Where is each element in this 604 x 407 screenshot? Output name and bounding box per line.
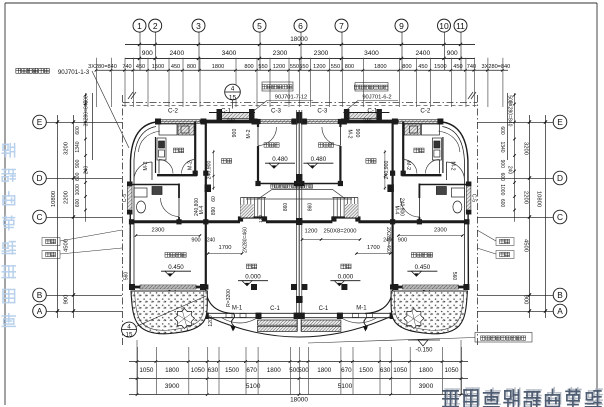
svg-text:240,900: 240,900 [207,161,213,180]
svg-text:11: 11 [456,21,465,31]
svg-text:3900: 3900 [165,383,180,390]
svg-text:1800: 1800 [267,367,282,374]
svg-text:450: 450 [171,64,180,70]
entry curved wall left [206,290,233,314]
svg-text:6: 6 [298,21,303,31]
window C-2 left [159,120,200,124]
svg-text:1500: 1500 [225,367,240,374]
svg-text:2200: 2200 [523,191,529,204]
svg-text:800: 800 [402,64,411,70]
curved bay wall left [130,122,156,290]
svg-text:1500: 1500 [359,367,374,374]
svg-text:D: D [37,173,43,183]
svg-text:1700: 1700 [367,245,380,251]
window C-1 bay left [222,113,250,119]
stair right unit [357,198,359,218]
svg-text:1200: 1200 [305,229,318,235]
svg-text:1000: 1000 [499,184,505,195]
level -0.150 [408,339,440,341]
bottom dimension chains [129,361,468,363]
svg-text:2300: 2300 [434,228,447,234]
svg-text:1050: 1050 [444,367,459,374]
svg-text:1: 1 [137,21,142,31]
svg-text:60: 60 [211,196,217,202]
gym bottom wall [258,183,297,185]
svg-text:18000: 18000 [290,36,308,43]
room label bedroom right [411,253,416,258]
dim line dining vertical left [213,150,215,190]
svg-text:1500: 1500 [152,64,164,70]
svg-text:800: 800 [345,64,354,70]
svg-text:M-2: M-2 [188,161,194,170]
svg-text:450: 450 [136,64,145,70]
svg-text:600: 600 [499,126,505,135]
svg-text:1800: 1800 [212,64,224,70]
kitchen right wall [194,122,196,175]
bath right wall [178,184,180,199]
svg-text:0.450: 0.450 [415,264,431,271]
window C-3 right [307,120,339,124]
curved bay wall right [442,122,468,290]
terrace right stippled [391,291,467,334]
svg-text:900: 900 [523,295,529,305]
svg-text:1050: 1050 [393,367,408,374]
svg-text:670: 670 [341,367,352,374]
svg-text:1800: 1800 [165,367,180,374]
dim line dining vertical right [384,150,386,190]
top fine dimension chain [96,69,508,71]
svg-text:3400: 3400 [364,50,379,57]
stairwell trapezoid [258,190,346,200]
section mark 4/15 bottom [122,322,137,337]
svg-text:600: 600 [499,173,505,182]
svg-text:C-2: C-2 [420,108,431,115]
bath fixtures left [134,188,147,197]
svg-text:860: 860 [283,203,289,212]
label sanshui left [46,239,50,243]
svg-text:1500: 1500 [434,64,446,70]
svg-text:4: 4 [127,323,131,330]
svg-text:3400: 3400 [222,50,237,57]
svg-text:1200: 1200 [273,64,285,70]
callout stair detail top-left [16,68,21,73]
svg-text:550: 550 [290,64,299,70]
room label gym left [264,143,268,147]
left dimension chain [73,115,75,318]
svg-text:5: 5 [257,21,262,31]
living bottom wall left (double line) [207,312,297,314]
window C-3 left [260,120,292,124]
svg-text:900: 900 [499,160,505,169]
bedroom bottom wall left [130,286,206,289]
svg-text:550: 550 [258,64,267,70]
kitchen bottom wall [157,174,197,176]
svg-text:7: 7 [339,21,344,31]
svg-text:C-5: C-5 [122,194,128,202]
svg-text:9: 9 [399,21,404,31]
svg-text:450: 450 [418,64,427,70]
svg-text:2X280=460: 2X280=460 [243,227,249,253]
svg-text:3200: 3200 [523,142,529,155]
svg-text:600: 600 [499,199,505,208]
svg-text:740: 740 [122,64,131,70]
callout water detail right [355,83,388,92]
svg-text:240: 240 [207,238,216,244]
svg-text:670: 670 [246,367,257,374]
svg-text:M-4: M-4 [199,205,205,214]
svg-text:M-1: M-1 [356,306,367,312]
svg-text:3X280=840: 3X280=840 [84,100,90,126]
svg-text:1200: 1200 [313,64,325,70]
svg-text:5100: 5100 [338,383,353,390]
svg-text:500: 500 [298,367,309,374]
porch arc center [209,317,390,337]
svg-text:630: 630 [380,367,391,374]
kitchen left wall [155,137,157,173]
stair left unit [240,198,242,218]
svg-text:C-1: C-1 [221,108,232,115]
svg-text:10800: 10800 [536,191,542,207]
svg-text:C: C [37,212,43,222]
svg-text:0.480: 0.480 [311,156,327,163]
svg-text:18000: 18000 [290,397,308,404]
kitchen counter right [421,124,439,135]
wall piers top [155,119,161,125]
svg-text:1800: 1800 [317,367,332,374]
svg-text:M-2: M-2 [449,162,455,171]
svg-text:600: 600 [75,126,81,135]
svg-text:2300: 2300 [152,228,165,234]
svg-text:0.450: 0.450 [168,264,184,271]
svg-text:800: 800 [187,64,196,70]
svg-text:2200: 2200 [64,191,70,204]
room label dining right [366,159,371,164]
svg-text:15: 15 [126,332,133,339]
svg-text:C: C [557,212,563,222]
door bath left [161,198,180,217]
svg-text:4500: 4500 [64,239,70,252]
door M-2 kitchen left [159,160,173,174]
wall junction piers [193,171,198,176]
door bath right [400,198,419,217]
svg-text:1000: 1000 [75,184,81,195]
svg-text:90J701-1-3: 90J701-1-3 [58,69,90,76]
svg-text:900: 900 [75,159,81,168]
party wall center [298,110,300,316]
door M-2 bay left [134,162,152,180]
grid bubbles top [133,19,146,32]
callout wall detail center [262,82,293,91]
svg-text:3X280=840: 3X280=840 [88,64,117,70]
svg-text:1700: 1700 [219,245,232,251]
svg-text:560: 560 [124,272,130,281]
svg-text:10800: 10800 [51,191,57,207]
page border top [5,2,597,4]
svg-text:90J701-6-2: 90J701-6-2 [362,95,391,101]
terrace plant right [404,309,424,329]
corridor note center [271,185,275,189]
gym left wall [257,122,259,128]
bath fixtures right [451,188,464,197]
svg-text:550: 550 [331,64,340,70]
svg-text:3X280=840: 3X280=840 [482,64,511,70]
svg-text:3: 3 [196,21,201,31]
outer wall top [155,120,443,124]
room label bedroom left [165,253,170,258]
svg-text:B: B [557,290,563,300]
svg-text:3900: 3900 [419,383,434,390]
svg-text:1200: 1200 [208,315,214,326]
svg-text:E: E [37,117,43,127]
svg-text:900: 900 [142,50,153,57]
living bottom wall right (double line) [302,312,392,314]
svg-text:D: D [557,173,563,183]
svg-text:240: 240 [84,166,90,175]
C-5 window caps [127,182,133,187]
room label living left [246,264,251,269]
svg-text:250X8=2000: 250X8=2000 [323,229,356,235]
svg-text:630: 630 [208,367,219,374]
label minggou left [46,252,50,256]
svg-text:C-2: C-2 [168,108,179,115]
svg-text:600: 600 [75,172,81,181]
svg-text:M-1: M-1 [232,306,243,312]
terrace plant left [175,309,195,329]
svg-text:240: 240 [507,166,513,175]
kitchen counter left [159,124,177,135]
svg-text:900: 900 [398,238,407,244]
room label gym right [318,143,322,147]
svg-text:C-1: C-1 [319,306,329,312]
svg-text:C-1: C-1 [367,108,378,115]
top main dimension chain [125,43,475,45]
svg-text:90J701-7-12: 90J701-7-12 [275,95,308,101]
svg-text:M-2: M-2 [246,129,252,138]
grid bubbles left [33,115,47,129]
svg-text:C-5: C-5 [470,194,476,202]
watermark bottom right [445,389,459,404]
hall wall vertical [205,122,207,227]
svg-text:560: 560 [451,272,457,281]
room label living right [341,264,346,269]
leader flower bed [308,338,475,344]
svg-text:M-2: M-2 [143,161,149,170]
entry curved wall right [365,290,392,314]
page border right [596,3,598,392]
svg-text:1050: 1050 [139,367,154,374]
svg-text:0.480: 0.480 [272,156,288,163]
svg-text:5100: 5100 [246,383,261,390]
room label dining left [221,159,226,164]
svg-text:240: 240 [227,119,236,125]
svg-text:900: 900 [447,50,458,57]
svg-text:C-3: C-3 [317,108,328,115]
label sanshui right [500,239,504,243]
sill hatch right [301,320,341,325]
door M-2 bay right [446,162,464,180]
svg-text:2400: 2400 [169,50,184,57]
label minggou right [500,252,504,256]
window C-5 left [128,186,133,210]
svg-text:2400: 2400 [415,50,430,57]
window C-5 right [466,186,471,210]
watermark left blue [2,144,14,157]
svg-text:1340: 1340 [499,141,505,152]
svg-text:2X280=460: 2X280=460 [385,227,391,253]
svg-text:120: 120 [258,215,264,223]
shaft box left [205,185,212,193]
door M-2 gym left [258,127,277,146]
svg-text:B: B [37,290,43,300]
svg-text:M-4: M-4 [393,206,399,215]
svg-text:1050: 1050 [191,367,206,374]
bedroom right wall [205,226,207,288]
svg-text:2300: 2300 [273,50,288,57]
svg-text:10: 10 [439,21,449,31]
svg-text:4500: 4500 [523,239,529,252]
site boundary dashed [123,102,478,104]
svg-text:860: 860 [307,203,313,212]
left fine dimension chain [85,93,87,222]
svg-text:900: 900 [64,295,70,305]
svg-text:3200: 3200 [64,142,70,155]
bath top wall [130,184,180,186]
entry door M-1 left [232,313,235,330]
bedroom bottom wall right [393,286,469,289]
room label kitchen right [414,148,419,153]
window C-1 bay right [349,113,377,119]
svg-text:2: 2 [153,21,158,31]
section mark 4/15 top [225,84,241,100]
svg-text:2300: 2300 [314,50,329,57]
svg-text:M-2: M-2 [346,130,352,139]
entry door M-1 right [364,313,367,330]
svg-text:890: 890 [211,207,217,216]
mid horizontal wall [130,220,241,223]
svg-text:900: 900 [232,129,238,138]
svg-text:C-3: C-3 [271,108,282,115]
svg-text:C-1: C-1 [270,306,280,312]
terrace left stippled [131,291,207,334]
door M-2 kitchen right [425,160,439,174]
door M-2 gym right [322,127,341,146]
grid bubbles right [553,115,567,129]
svg-text:E: E [557,117,563,127]
page border left [4,3,6,405]
svg-text:0.000: 0.000 [245,274,261,281]
sill hatch left [258,320,298,325]
svg-text:1800: 1800 [419,367,434,374]
svg-text:R=3200: R=3200 [226,289,232,307]
svg-text:1800: 1800 [374,64,386,70]
svg-text:-0.150: -0.150 [415,348,433,354]
svg-text:A: A [557,306,563,316]
svg-text:450: 450 [453,64,462,70]
svg-text:600: 600 [75,199,81,208]
svg-text:900: 900 [354,129,360,138]
door M-1 kitchen hall left [182,160,196,174]
wall piers bottom [129,284,135,290]
svg-text:240: 240 [363,119,372,125]
shaft box right [387,185,394,193]
svg-text:3X280=840: 3X280=840 [507,101,513,127]
party wall bottom channel [296,318,298,332]
svg-text:800: 800 [244,64,253,70]
door M-1 kitchen hall right [403,160,417,174]
window C-2 right [398,120,439,124]
room label kitchen left [173,148,178,153]
svg-text:1340: 1340 [75,141,81,152]
svg-text:M-2: M-2 [405,161,411,170]
svg-text:4: 4 [231,86,235,93]
svg-text:900: 900 [191,238,200,244]
svg-text:0.000: 0.000 [338,274,354,281]
svg-text:A: A [37,306,43,316]
